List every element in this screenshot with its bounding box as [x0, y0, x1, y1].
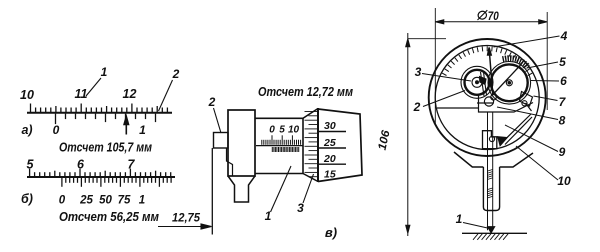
dial indicator: leader 5: [527, 62, 558, 68]
micrometer: leader line 2: [214, 108, 222, 133]
dial indicator: needle: [488, 48, 493, 95]
dial indicator: leader 2: [423, 91, 465, 107]
dial indicator: leader 10: [516, 146, 558, 180]
micrometer: sleeve outline: [255, 118, 303, 173]
svg-text:11: 11: [75, 87, 88, 101]
svg-text:1: 1: [456, 212, 463, 226]
dial indicator: leader 6: [531, 80, 559, 83]
dial indicator: leader 9: [505, 125, 558, 152]
dial indicator: diameter extension line left: [434, 8, 436, 124]
svg-text:Отсчет 12,72 мм: Отсчет 12,72 мм: [258, 85, 353, 99]
dial indicator: leader 3: [422, 74, 471, 82]
micrometer: spindle face line: [211, 148, 213, 235]
svg-text:а): а): [21, 123, 32, 137]
dial indicator: hairspring arc segment: [503, 59, 528, 68]
micrometer: anvil block: [214, 133, 229, 149]
figure a: vernier ticks: [56, 114, 156, 125]
figure b: main scale ticks: [30, 169, 171, 177]
dial indicator: leader 8: [497, 107, 558, 120]
dial indicator: left gear wheel: [461, 66, 493, 98]
dial indicator: diameter dimension text: [477, 9, 499, 23]
dial indicator: needle pivot circle: [491, 94, 497, 100]
svg-text:30: 30: [324, 120, 336, 132]
svg-text:2: 2: [208, 95, 216, 109]
dial indicator: rack bracket: [483, 131, 497, 149]
svg-text:3: 3: [297, 201, 304, 215]
figure a: vernier pointer arrow: [124, 117, 128, 135]
svg-text:3: 3: [415, 65, 422, 79]
svg-text:15: 15: [324, 169, 336, 181]
svg-text:б): б): [21, 192, 33, 206]
svg-text:4: 4: [560, 29, 568, 43]
svg-text:2: 2: [172, 67, 180, 81]
dial indicator: outer bezel circle: [429, 39, 546, 156]
figure b: vernier ticks: [62, 178, 171, 187]
svg-text:9: 9: [559, 145, 566, 159]
svg-text:70: 70: [488, 9, 499, 23]
dial indicator: inner bezel circle: [435, 46, 539, 150]
dial indicator: leader 4: [494, 36, 560, 47]
figure a: leader line 1: [86, 78, 101, 96]
micrometer: sleeve mm ticks: [262, 135, 301, 145]
micrometer: sleeve reference line: [256, 145, 303, 147]
dial indicator: height extension line top: [408, 38, 446, 40]
svg-text:10: 10: [557, 174, 571, 188]
svg-text:в): в): [325, 225, 337, 240]
svg-text:20: 20: [323, 153, 336, 165]
micrometer: frame body: [228, 110, 255, 176]
svg-text:5: 5: [279, 125, 285, 136]
svg-text:0: 0: [53, 123, 60, 137]
micrometer: frame foot: [228, 176, 255, 202]
dial indicator: height dimension line with arrows: [406, 33, 410, 236]
svg-text:1: 1: [101, 65, 108, 79]
dial indicator: right gear wheel: [488, 62, 531, 105]
svg-text:6: 6: [560, 74, 567, 88]
micrometer: thimble outline: [318, 109, 362, 182]
figure a: leader line 2: [159, 80, 173, 111]
svg-text:5: 5: [559, 55, 566, 69]
micrometer: thimble face edge: [317, 108, 319, 182]
dial indicator: dial scale ticks: [442, 46, 532, 75]
micrometer: leader line 3: [303, 174, 314, 203]
figure b: main scale line: [27, 176, 175, 178]
dial indicator: leader 7: [534, 96, 558, 101]
dial indicator: measuring plunger: [487, 113, 489, 231]
dial indicator: leader 1: [463, 223, 488, 229]
svg-text:10: 10: [288, 125, 300, 136]
micrometer: sleeve half-mm ticks: [272, 147, 298, 152]
dial indicator: left gear pawl: [480, 72, 487, 96]
svg-text:75: 75: [118, 195, 131, 207]
svg-text:1: 1: [139, 195, 145, 207]
figure a: main scale line: [27, 112, 172, 114]
svg-text:25: 25: [323, 137, 336, 149]
svg-text:0: 0: [59, 195, 66, 207]
dial indicator: stem: [483, 167, 499, 211]
micrometer: thimble bevel outline: [303, 109, 318, 182]
dial indicator: contact point: [487, 227, 495, 234]
micrometer: heel step outline: [227, 148, 233, 176]
dial indicator: escape anchor: [520, 92, 533, 107]
svg-text:Отсчет 56,25 мм: Отсчет 56,25 мм: [59, 210, 159, 224]
svg-text:7: 7: [128, 158, 136, 172]
svg-text:12,75: 12,75: [172, 211, 200, 225]
dial indicator: rack teeth hatch: [488, 170, 493, 198]
svg-text:0: 0: [269, 125, 275, 136]
micrometer: thimble scale lines: [318, 131, 346, 133]
svg-text:5: 5: [27, 158, 35, 172]
figure a: main scale ticks: [31, 104, 168, 113]
dial indicator: jewel screw left: [484, 97, 493, 106]
dial indicator: ground hatching: [473, 234, 508, 240]
dial indicator: ground line: [462, 232, 527, 234]
dial indicator: diameter dimension line with arrows: [435, 20, 547, 24]
dial indicator: diameter extension line right: [546, 12, 548, 110]
dial indicator: case shoulders: [454, 152, 533, 167]
micrometer: dimension arrow: [158, 224, 212, 229]
svg-text:2: 2: [413, 100, 421, 114]
svg-text:12: 12: [123, 87, 137, 101]
micrometer: thimble bevel ticks: [305, 112, 318, 177]
svg-text:10: 10: [20, 88, 34, 102]
svg-text:8: 8: [559, 114, 566, 128]
dial indicator: pallet triangle: [498, 137, 508, 147]
svg-text:25: 25: [79, 195, 93, 207]
dial indicator: plate screw right: [522, 101, 527, 106]
dial indicator: pivot small circle: [489, 136, 494, 141]
dial indicator: gear lever line: [493, 65, 522, 96]
svg-text:Отсчет 105,7 мм: Отсчет 105,7 мм: [59, 141, 152, 155]
micrometer: leader line 1: [271, 166, 292, 212]
svg-text:50: 50: [99, 195, 112, 207]
svg-text:1: 1: [139, 123, 146, 137]
dial indicator: mechanism plate outline: [437, 96, 533, 145]
svg-text:6: 6: [77, 158, 85, 172]
